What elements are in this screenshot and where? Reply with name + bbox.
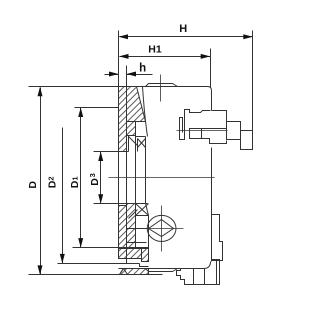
dimension h line right <box>127 74 153 76</box>
D top arrow <box>38 87 43 97</box>
bottom jaw hatched band <box>119 206 127 249</box>
dimension D2 bottom extension line <box>58 263 140 265</box>
dimension D3 bottom extension line <box>94 203 148 205</box>
top socket boss <box>146 84 178 87</box>
dimension D1 top extension line <box>75 107 119 109</box>
dimension H extension line left <box>118 31 120 88</box>
top master jaw hatched area <box>127 87 146 122</box>
D3 top arrow <box>98 152 103 162</box>
wrench socket horizontal centerline <box>139 228 184 230</box>
mounting bolt shaft <box>202 129 227 144</box>
spindle centerline <box>109 177 215 179</box>
dimension D2 line <box>62 128 64 264</box>
wrench socket square <box>149 220 174 237</box>
bottom slot cross pattern <box>136 204 149 216</box>
bore bottom chamfer diagonal <box>129 210 138 219</box>
dimension D3 top extension line <box>94 151 129 153</box>
D1 bottom arrow <box>78 238 83 248</box>
socket boss centerline tick <box>160 75 162 102</box>
bottom socket boss <box>146 269 178 272</box>
H right arrow <box>243 34 253 39</box>
svg-text:H: H <box>179 23 187 35</box>
svg-text:2: 2 <box>47 176 56 180</box>
D bottom arrow <box>38 265 43 275</box>
H left arrow <box>119 34 129 39</box>
D3 bottom arrow <box>98 194 103 204</box>
dimension D1 bottom extension line <box>73 247 149 249</box>
bottom master jaw hatched band <box>127 204 136 229</box>
dimension H line <box>120 36 253 38</box>
top slot cross pattern <box>138 139 146 148</box>
body bottom back rounded corner <box>204 262 211 269</box>
H1 left arrow <box>119 54 129 59</box>
mounting bolt nut <box>190 129 202 139</box>
arrowheads <box>38 34 253 275</box>
body outer diameter bottom edge <box>119 268 204 270</box>
bottom jaw step block <box>142 249 149 262</box>
D1 top arrow <box>78 108 83 118</box>
mounting bolt middle block <box>227 122 241 140</box>
rear flange step <box>212 215 223 261</box>
body outer diameter top edge <box>119 86 209 88</box>
wrench socket vertical centerline <box>161 206 163 252</box>
dimension h line left <box>105 74 119 76</box>
svg-text:h: h <box>139 62 146 74</box>
bolt axis centerline <box>177 130 228 132</box>
h right arrow <box>127 72 137 77</box>
top jaw hatched band <box>119 87 127 152</box>
bottom jaw outermost step hatched <box>120 269 149 275</box>
jaw front face <box>118 87 120 259</box>
svg-text:3: 3 <box>88 173 97 177</box>
top jaw outer slant edge <box>143 87 148 137</box>
H1 right arrow <box>201 54 211 59</box>
bottom jaw step edges <box>127 228 149 230</box>
svg-text:D: D <box>89 178 101 186</box>
svg-text:H1: H1 <box>148 44 162 56</box>
h left arrow <box>109 72 119 77</box>
side jaw guide edge <box>146 137 149 249</box>
bore top chamfer diagonal <box>129 137 138 146</box>
body back face <box>208 87 212 111</box>
bottom jaw step 2 edge <box>140 264 149 267</box>
mounting bolt bracket <box>180 110 211 140</box>
dimension H extension line right <box>252 31 254 150</box>
mounting bolt boss top edge <box>212 111 227 122</box>
chuck body front face <box>126 87 128 264</box>
D2 bottom arrow <box>60 254 65 264</box>
svg-text:1: 1 <box>71 176 80 180</box>
dimension D top extension line <box>29 86 119 88</box>
dimension H1 extension line right <box>210 49 212 88</box>
dimension D1 line <box>80 108 82 248</box>
dimension h extension line <box>126 66 128 88</box>
dimension D line <box>40 88 42 275</box>
top jaw step edge <box>127 135 136 137</box>
mounting bolt square end <box>241 131 253 150</box>
svg-text:D: D <box>27 181 39 189</box>
bore front edge <box>128 136 130 152</box>
bottom jaw step 1 hatched <box>119 249 142 259</box>
jaw guide vertical <box>135 122 137 204</box>
dimension D bottom extension line <box>29 274 163 276</box>
rear foot <box>177 260 220 285</box>
top master jaw lower hatched band <box>127 122 136 136</box>
wrench socket ellipse <box>147 215 176 241</box>
dimension D3 line <box>100 152 102 204</box>
dimension H1 line <box>120 56 211 58</box>
